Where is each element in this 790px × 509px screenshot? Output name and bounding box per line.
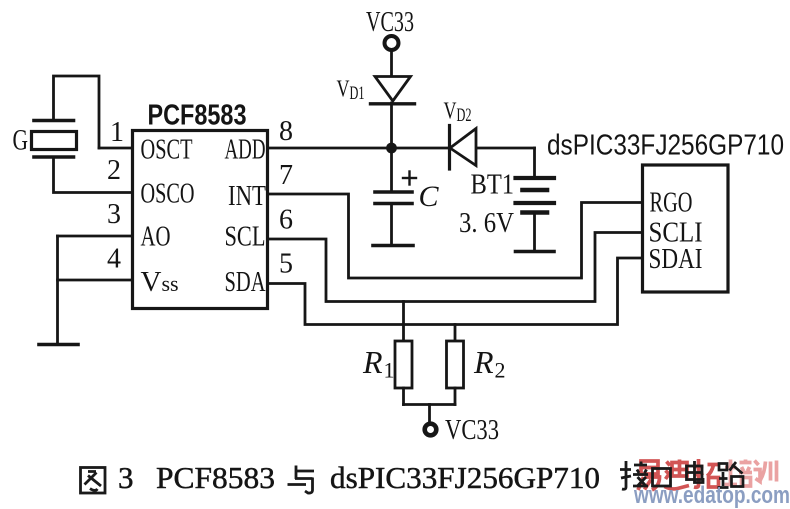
svg-text:R: R <box>473 344 494 380</box>
svg-text:PCF8583: PCF8583 <box>156 460 275 495</box>
watermark: CJK char YI (easy) red <box>638 461 660 490</box>
caption: CJK char JIE (interface-1) <box>620 461 648 489</box>
wire ADD net (pin8 to battery corner) <box>268 147 535 150</box>
svg-text:6: 6 <box>279 205 293 236</box>
svg-text:G: G <box>13 124 29 157</box>
watermark: CJK char TUO (expand) red <box>693 459 720 487</box>
svg-text:PCF8583: PCF8583 <box>148 100 247 132</box>
svg-text:www.edatop.com: www.edatop.com <box>633 482 790 509</box>
ground bar lower left <box>39 343 78 347</box>
svg-text:RGO: RGO <box>650 187 693 219</box>
caption: CJK char LU (circuit-2) <box>718 462 744 488</box>
polarity plus sign for C <box>403 172 416 185</box>
wire crystal bottom to pin2 OSCO <box>54 159 133 193</box>
crystal G <box>32 121 77 158</box>
svg-text:5: 5 <box>279 249 293 280</box>
wire capacitor bottom lead <box>390 204 393 245</box>
wire battery top lead <box>533 148 536 177</box>
wire crystal top link <box>54 76 100 148</box>
svg-text:C: C <box>419 180 440 213</box>
svg-text:3. 6V: 3. 6V <box>459 208 514 239</box>
svg-text:3: 3 <box>107 199 121 230</box>
wire VC33 terminal to VD1 anode <box>390 51 393 79</box>
wire pin4 Vss lead <box>58 279 133 282</box>
watermark: CJK char PEI (train-1) light red <box>725 460 753 487</box>
svg-text:SDAI: SDAI <box>649 243 703 275</box>
IC U2 dsPIC33FJ256GP710 body <box>643 165 729 292</box>
resistor R1 <box>395 302 412 405</box>
caption: CJK char TU (figure) <box>81 468 106 494</box>
svg-text:4: 4 <box>107 244 121 275</box>
svg-text:VC33: VC33 <box>366 7 414 38</box>
wire SDA net (pin5 to SDAI) <box>268 258 643 325</box>
node VC33 (top terminal circle) <box>385 36 399 50</box>
svg-text:3: 3 <box>118 460 134 495</box>
svg-text:8: 8 <box>279 116 293 147</box>
battery BT1 <box>516 178 555 213</box>
wire pin1 OSCT lead <box>99 147 133 150</box>
svg-text:OSCT: OSCT <box>141 134 193 166</box>
svg-text:dsPIC33FJ256GP710: dsPIC33FJ256GP710 <box>330 460 600 495</box>
diode VD1 <box>371 77 415 104</box>
svg-text:Vss: Vss <box>141 266 179 298</box>
wire junction to capacitor C <box>390 148 393 191</box>
wire SCL net (pin6 to SCLI) <box>268 233 643 302</box>
caption: CJK char KOU (interface-2) <box>653 469 671 487</box>
IC U1 PCF8583 body <box>133 131 268 309</box>
capacitor C plates <box>375 192 412 204</box>
wire R1/R2 bottom connector <box>404 403 456 406</box>
wire battery bottom lead <box>533 215 536 251</box>
junction ADD/VD1/C <box>386 143 397 154</box>
svg-text:1: 1 <box>384 358 395 383</box>
caption: CJK char DIAN (circuit-1) <box>687 461 704 483</box>
svg-text:2: 2 <box>495 358 506 383</box>
svg-text:7: 7 <box>279 160 293 191</box>
svg-text:AO: AO <box>141 221 171 253</box>
resistor R2 <box>447 325 464 405</box>
svg-text:VC33: VC33 <box>445 415 499 446</box>
watermark: CJK char XUN (train-2) light red <box>754 461 777 482</box>
ground bar under C <box>373 244 413 248</box>
wire to bottom VC33 terminal <box>428 405 431 424</box>
svg-text:2: 2 <box>107 155 121 186</box>
watermark: CJK char DI (enlighten) red <box>665 460 690 489</box>
svg-text:BT1: BT1 <box>471 170 515 201</box>
ground bar under BT1 <box>516 250 555 254</box>
wire INT net (pin7 to RGO) <box>268 194 643 278</box>
node VC33 (bottom terminal circle) <box>425 424 437 436</box>
svg-text:INT: INT <box>228 180 266 212</box>
svg-text:dsPIC33FJ256GP710: dsPIC33FJ256GP710 <box>547 130 784 162</box>
wire pin3 A0 lead <box>58 235 133 238</box>
svg-text:SDA: SDA <box>225 266 266 298</box>
svg-text:SCL: SCL <box>225 221 266 253</box>
diode VD2 <box>450 126 477 170</box>
svg-text:R: R <box>362 344 383 380</box>
svg-text:1: 1 <box>110 117 124 148</box>
wire A0/Vss to ground <box>56 236 59 344</box>
svg-text:OSCO: OSCO <box>141 178 195 210</box>
wire VD1 cathode to junction <box>390 103 393 150</box>
caption: CJK char YU (with) <box>288 466 315 494</box>
svg-text:ADD: ADD <box>225 134 266 166</box>
